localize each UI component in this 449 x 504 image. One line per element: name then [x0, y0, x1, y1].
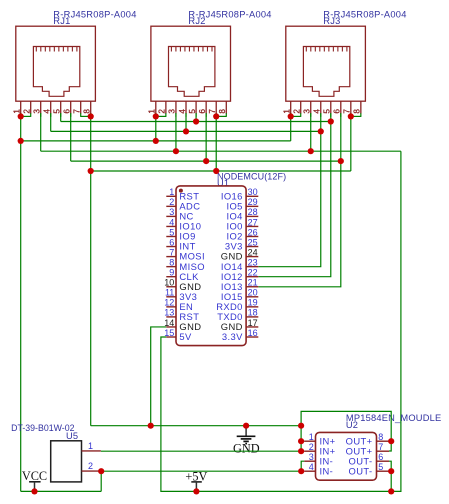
wire bus line1 (pin5 net) [61, 121, 331, 123]
svg-text:5: 5 [323, 109, 332, 114]
svg-text:RJ2: RJ2 [188, 16, 205, 26]
wire RJ2 pin1 drop [155, 113, 157, 141]
svg-text:20: 20 [248, 288, 258, 298]
junction RJ2 pin1 tie [153, 113, 159, 119]
svg-text:22: 22 [248, 268, 258, 278]
svg-text:4: 4 [169, 217, 174, 227]
wire U2 pin2 stub join [301, 450, 304, 452]
svg-text:7: 7 [378, 442, 383, 452]
svg-text:6: 6 [63, 109, 72, 114]
wire RJ1 pin4 drop [50, 113, 52, 131]
wire RJ2 pin2 to pin1 tie [156, 115, 166, 117]
junction RJ3 pin7 tie [348, 113, 354, 119]
svg-text:13: 13 [164, 308, 174, 318]
svg-text:3: 3 [309, 452, 314, 462]
svg-text:5V: 5V [179, 331, 192, 342]
svg-text:OUT-: OUT- [349, 466, 373, 477]
svg-text:1: 1 [169, 187, 174, 197]
svg-text:23: 23 [248, 257, 258, 267]
svg-text:2: 2 [88, 461, 93, 471]
svg-text:6: 6 [378, 452, 383, 462]
svg-text:16: 16 [248, 328, 258, 338]
junction RJ2 pin5 line1 [193, 118, 199, 124]
junction U2 left vertical gnd rail [298, 423, 304, 429]
svg-text:15: 15 [164, 328, 174, 338]
wire RJ3 pin4 column to IO14 [258, 113, 320, 267]
svg-text:GND: GND [233, 442, 260, 456]
wire RJ3 pin5 column to IO12 [258, 113, 330, 277]
junction RJ1 pin8 line6 [88, 168, 94, 174]
wire RJ1 pin5 drop [60, 113, 62, 121]
wire RJ3 pin1 drop [290, 113, 292, 141]
svg-text:2: 2 [169, 197, 174, 207]
wire bus line2 (pin4 net) [51, 130, 321, 132]
junction RJ1 pin1 line3 [18, 138, 24, 144]
wire bus line3 (pin1/2 net) [21, 140, 291, 142]
svg-text:5: 5 [378, 462, 383, 472]
wire U2 pin6 to pin5 jog [389, 461, 391, 471]
wire RJ3 pin7 drop to line6 [350, 116, 352, 171]
wire RJ1 pin6 drop [70, 113, 72, 161]
wire U2 pin1 stub join [301, 440, 304, 442]
svg-text:8: 8 [169, 257, 174, 267]
junction U2 pin1 [298, 438, 304, 444]
wire RJ3 pin3 drop [310, 113, 312, 151]
junction RJ2 pin3 line4 [173, 148, 179, 154]
svg-text:17: 17 [248, 318, 258, 328]
wire U5 pin2 drop to VCC rail [100, 471, 102, 491]
junction U2 pin8 [388, 438, 394, 444]
svg-text:2: 2 [158, 109, 167, 114]
wire bus line4 (pin3 net) [41, 150, 401, 152]
wire RJ1 pin3 drop [40, 113, 42, 151]
svg-text:RJ3: RJ3 [323, 16, 340, 26]
junction RJ2 pin7 tie [213, 113, 219, 119]
svg-text:7: 7 [343, 109, 352, 114]
wire RJ2 pin6 drop [205, 113, 207, 161]
wire line4 net right drop to +5V rail [391, 151, 401, 491]
junction RJ3 pin5 line1 [328, 118, 334, 124]
svg-text:4: 4 [43, 109, 52, 114]
wire RJ3 pin7 to pin8 tie [351, 115, 361, 117]
junction U1 pin14 gnd rail [148, 423, 154, 429]
svg-text:U2: U2 [346, 420, 358, 430]
junction +5V [193, 488, 199, 494]
svg-text:19: 19 [248, 298, 258, 308]
svg-text:RJ1: RJ1 [53, 16, 70, 26]
wire bus line5 (pin6 net) [71, 160, 341, 162]
svg-text:18: 18 [248, 308, 258, 318]
wire bus line6 (pin7/8 net) [91, 170, 351, 172]
svg-text:7: 7 [73, 109, 82, 114]
wire U1 pin15 5V to +5V rail [161, 337, 196, 491]
svg-text:VCC: VCC [22, 469, 47, 483]
wire GND rail [91, 425, 301, 427]
wire U1 pin14 GND to ground rail [151, 327, 167, 426]
svg-text:8: 8 [83, 109, 92, 114]
junction RJ2 pin6 line5 [203, 158, 209, 164]
wire U2 pin5 drop to +5V rail [390, 471, 392, 491]
svg-text:12: 12 [164, 298, 174, 308]
svg-text:U5: U5 [66, 431, 78, 441]
junction RJ2 pin7 line6 [213, 168, 219, 174]
svg-text:25: 25 [248, 237, 258, 247]
wire RJ2 pin4 drop [185, 113, 187, 131]
svg-text:1: 1 [309, 432, 314, 442]
svg-text:7: 7 [208, 109, 217, 114]
svg-text:10: 10 [164, 278, 174, 288]
junction RJ3 pin3 line4 [308, 148, 314, 154]
wire +5V rail right segment [196, 490, 391, 492]
wire RJ1 pin2 to pin1 tie [21, 115, 31, 117]
svg-text:IN-: IN- [320, 466, 334, 477]
wire RJ2 pin3 drop [175, 113, 177, 151]
svg-text:8: 8 [218, 109, 227, 114]
svg-text:5: 5 [188, 109, 197, 114]
junction U2 pin5 [388, 468, 394, 474]
junction U5 pin2 [98, 468, 104, 474]
svg-text:6: 6 [169, 237, 174, 247]
svg-text:7: 7 [169, 247, 174, 257]
wire U2 pin8 stub join [389, 440, 391, 442]
svg-text:28: 28 [248, 207, 258, 217]
svg-text:3: 3 [169, 207, 174, 217]
svg-text:24: 24 [248, 247, 258, 257]
wire U2 feedback loop top [301, 411, 391, 451]
wire RJ1 pin8 column to GND rail [90, 113, 92, 426]
ground symbol GND [245, 427, 247, 437]
junction RJ2 pin1 line3 [153, 138, 159, 144]
svg-text:4: 4 [309, 462, 314, 472]
svg-text:1: 1 [13, 109, 22, 114]
svg-text:2: 2 [23, 109, 32, 114]
svg-text:MP1584EN_MOUDLE: MP1584EN_MOUDLE [346, 413, 442, 423]
junction RJ3 pin4 line2 [318, 128, 324, 134]
junction RJ3 pin6 line5 [338, 158, 344, 164]
junction U2 pin4 [298, 468, 304, 474]
junction U2 out drop rail [388, 488, 394, 494]
svg-text:5: 5 [53, 109, 62, 114]
svg-text:21: 21 [248, 278, 258, 288]
svg-text:4: 4 [313, 109, 322, 114]
svg-text:1: 1 [283, 109, 292, 114]
svg-text:6: 6 [333, 109, 342, 114]
wire U5 pin2 to U2 pin3/4 [101, 470, 301, 472]
junction RJ1 pin1 tie [18, 113, 24, 119]
junction U2 pin2 [298, 448, 304, 454]
svg-text:3: 3 [303, 109, 312, 114]
wire RJ1 pin1 column down left side [20, 113, 22, 491]
junction GND symbol [243, 423, 249, 429]
wire RJ3 pin6 column to IO13 [258, 113, 341, 287]
svg-text:3: 3 [168, 109, 177, 114]
svg-text:6: 6 [198, 109, 207, 114]
svg-text:5: 5 [169, 227, 174, 237]
wire RJ2 pin5 drop [195, 113, 197, 121]
svg-text:11: 11 [165, 288, 174, 298]
junction RJ3 pin1 tie [288, 113, 294, 119]
wire U2 pin3 to pin4 jog [301, 461, 304, 471]
svg-text:3: 3 [33, 109, 42, 114]
wire RJ1 pin7 to pin8 tie [81, 115, 91, 117]
junction VCC [31, 488, 37, 494]
svg-text:3.3V: 3.3V [222, 331, 243, 342]
svg-text:8: 8 [353, 109, 362, 114]
wire VCC rail left segment [21, 490, 102, 492]
svg-text:1: 1 [88, 441, 93, 451]
svg-text:27: 27 [248, 217, 258, 227]
wire U5 pin1 to U2 pin2 [101, 450, 301, 452]
svg-text:2: 2 [309, 442, 314, 452]
junction RJ2 pin4 line2 [183, 128, 189, 134]
svg-text:29: 29 [248, 197, 258, 207]
wire RJ2 pin7 to pin8 tie [216, 115, 226, 117]
svg-text:14: 14 [164, 318, 174, 328]
svg-text:2: 2 [293, 109, 302, 114]
svg-text:1: 1 [148, 109, 157, 114]
svg-text:9: 9 [169, 268, 174, 278]
svg-text:8: 8 [378, 432, 383, 442]
svg-text:4: 4 [178, 109, 187, 114]
junction RJ1 pin8 tie [88, 113, 94, 119]
svg-text:30: 30 [248, 187, 258, 197]
wire RJ2 pin7 drop [215, 116, 217, 171]
wire RJ3 pin2 to pin1 tie [291, 115, 301, 117]
svg-text:26: 26 [248, 227, 258, 237]
